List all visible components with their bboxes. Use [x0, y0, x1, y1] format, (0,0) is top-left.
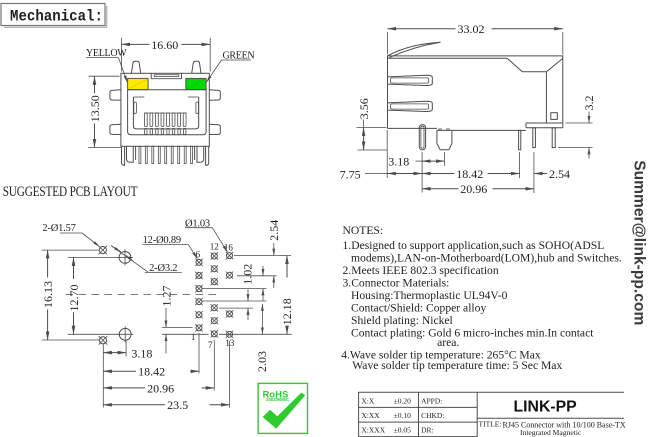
notes text block — [341, 224, 622, 372]
svg-text:Mechanical:: Mechanical: — [10, 7, 103, 26]
svg-text:LINK-PP: LINK-PP — [514, 399, 577, 416]
pcb: post hole 2-dia3.2 bottom — [117, 326, 133, 342]
svg-text:2.54: 2.54 — [267, 220, 281, 241]
dimension 3.56 (pin length) — [357, 98, 388, 150]
pcb: label 2-dia3.2 with leader — [111, 246, 182, 274]
front view: cavity side pins — [134, 102, 199, 114]
svg-text:13: 13 — [225, 338, 235, 348]
front view: 8-contact comb — [144, 113, 186, 135]
pcb: pin holes column 3 (pins 13-16) — [226, 252, 233, 338]
side view: latch arm slot lower — [388, 101, 433, 111]
svg-text:1.02: 1.02 — [241, 264, 255, 285]
front view: bottom shield legs — [122, 146, 209, 165]
svg-text:X:XXX: X:XXX — [361, 426, 385, 435]
dimension 18.42 (pcb bottom) — [103, 333, 199, 379]
svg-text:1.27: 1.27 — [159, 286, 173, 307]
side view: right pins — [533, 128, 555, 148]
front view: top EMI tab right — [192, 61, 201, 73]
pcb: dashed centerline — [66, 294, 222, 296]
svg-text:X:X: X:X — [361, 396, 375, 405]
dimension 12.70 (pcb left) — [67, 257, 118, 334]
dimension 1.02 (pcb, column offsets) — [202, 264, 277, 320]
svg-text:7.75: 7.75 — [340, 167, 361, 181]
dimension 3.18 (pcb bottom) — [103, 341, 152, 408]
pcb: label 2-dia1.57 with leader — [42, 223, 99, 246]
side view: plastic post (capsule) — [419, 125, 425, 150]
svg-text:Contact plating: Gold 6 micro-: Contact plating: Gold 6 micro-inches min… — [351, 327, 594, 340]
svg-text:3.56: 3.56 — [357, 98, 371, 119]
title text — [479, 420, 626, 437]
svg-text:12.18: 12.18 — [280, 298, 294, 325]
svg-text:3.Connector Materials:: 3.Connector Materials: — [343, 277, 450, 290]
side view: wide shield pin — [437, 129, 452, 150]
svg-text:2-Ø1.57: 2-Ø1.57 — [42, 223, 75, 234]
pcb: mounting hole 2-dia1.57 bottom — [99, 336, 108, 345]
dimension 3.2 (right) — [558, 96, 596, 159]
svg-text:7: 7 — [208, 340, 213, 350]
pcb: pin holes column 1 (pins 1-6) — [195, 259, 202, 332]
pcb: post hole 2-dia3.2 top — [117, 249, 133, 265]
side view: latch arm slot upper — [388, 75, 433, 85]
front view: right mounting ears — [209, 90, 220, 135]
RoHS logo — [258, 383, 307, 433]
dimension 1.27 (row offset) — [159, 286, 208, 354]
svg-text:NOTES:: NOTES: — [343, 224, 384, 237]
svg-text:CHKD:: CHKD: — [421, 411, 444, 420]
svg-text:16.13: 16.13 — [41, 281, 55, 308]
svg-text:33.02: 33.02 — [458, 22, 485, 36]
svg-text:12.70: 12.70 — [67, 285, 81, 312]
svg-text:3.2: 3.2 — [582, 96, 596, 111]
svg-text:Housing:Thermoplastic UL94V-0: Housing:Thermoplastic UL94V-0 — [351, 289, 508, 302]
svg-text:area.: area. — [437, 336, 459, 349]
svg-text:modems),LAN-on-Motherboard(LOM: modems),LAN-on-Motherboard(LOM),hub and … — [351, 252, 622, 265]
title header box "Mechanical:" — [1, 4, 107, 28]
title block texts — [361, 396, 444, 434]
svg-text:DR:: DR: — [421, 426, 434, 435]
dimension 18.42 (side) — [422, 152, 519, 181]
svg-text:23.5: 23.5 — [167, 398, 188, 412]
side view: latch spring — [388, 42, 440, 57]
LINK-PP logo text — [514, 399, 577, 416]
svg-text:±0.20: ±0.20 — [394, 396, 411, 405]
side view: bottom right platform — [526, 123, 563, 128]
svg-text:2.54: 2.54 — [549, 167, 570, 181]
yellow LED window — [128, 78, 149, 89]
svg-text:Contact/Shield: Copper alloy: Contact/Shield: Copper alloy — [351, 302, 486, 315]
dimension 3.18 (side, post to pin) — [388, 152, 444, 193]
svg-text:2002/95/EC: 2002/95/EC — [266, 397, 290, 402]
side view: small square hole — [551, 113, 558, 120]
dimension 23.5 (pcb bottom) — [103, 341, 229, 412]
front view: left mounting ears — [110, 90, 121, 135]
front view: top EMI tab left — [131, 61, 140, 73]
pcb: label 12-dia0.89 with leader — [143, 235, 198, 259]
label GREEN with leader — [206, 51, 254, 83]
pcb: label dia1.03 with leader — [185, 218, 228, 252]
svg-text:12: 12 — [210, 242, 219, 252]
dimension 2.03 (pcb right) — [255, 304, 269, 372]
dimension 16.13 (pcb left) — [41, 250, 99, 340]
dimension 20.96 (side) — [422, 182, 534, 196]
svg-text:±0.05: ±0.05 — [394, 426, 411, 435]
section label: SUGGESTED PCB LAYOUT — [3, 183, 138, 200]
svg-text:3.18: 3.18 — [131, 346, 152, 360]
svg-text:13.50: 13.50 — [88, 95, 102, 122]
dimension 13.50 (front height) — [88, 76, 121, 147]
side view: body outline — [388, 56, 563, 130]
dimension 2.54 (pcb top right) — [234, 220, 291, 288]
svg-text:±0.10: ±0.10 — [394, 411, 411, 420]
svg-text:Wave solder tip temperature ti: Wave solder tip temperature time: 5 Sec … — [352, 359, 562, 372]
svg-text:SUGGESTED PCB LAYOUT: SUGGESTED PCB LAYOUT — [3, 183, 138, 200]
svg-text:16: 16 — [224, 242, 234, 252]
svg-text:20.96: 20.96 — [147, 381, 174, 395]
svg-text:20.96: 20.96 — [460, 182, 487, 196]
pcb: mounting hole 2-dia1.57 top — [98, 246, 107, 255]
svg-text:X:XX: X:XX — [361, 411, 380, 420]
dimension 33.02 (side length) — [388, 22, 563, 54]
front view: top latch window — [151, 73, 181, 78]
label YELLOW with leader — [86, 48, 127, 82]
svg-text:Integrated Magnetic: Integrated Magnetic — [520, 428, 582, 437]
title block table — [359, 392, 624, 437]
svg-text:18.42: 18.42 — [456, 167, 483, 181]
svg-text:1.Designed to support applicat: 1.Designed to support application,such a… — [343, 239, 605, 252]
svg-text:2.03: 2.03 — [255, 351, 269, 372]
pcb: pin number labels — [191, 242, 235, 351]
dimension 7.75 — [340, 130, 423, 181]
svg-text:Shield plating: Nickel: Shield plating: Nickel — [351, 314, 453, 327]
svg-text:2.Meets IEEE 802.3 specificati: 2.Meets IEEE 802.3 specification — [343, 264, 499, 277]
svg-text:Summer@link-pp.com: Summer@link-pp.com — [631, 160, 648, 325]
pcb: pin holes column 2 (pins 7-12) — [211, 252, 218, 337]
svg-text:APPD:: APPD: — [421, 396, 442, 405]
dimension 20.96 (pcb bottom) — [103, 340, 214, 395]
dimension 2.54 (side) — [534, 152, 570, 193]
green LED window — [186, 78, 206, 89]
svg-text:16.60: 16.60 — [151, 38, 178, 52]
dimension 16.60 (front width) — [122, 38, 211, 72]
vertical email text Summer@link-pp.com — [631, 160, 648, 325]
svg-text:1: 1 — [191, 332, 196, 342]
front view: connector body outline — [121, 73, 209, 146]
front view: jack cavity outline — [128, 90, 207, 135]
svg-text:3.18: 3.18 — [388, 154, 409, 168]
side view: contact pin — [519, 130, 521, 149]
dimension 12.18 (pcb right) — [219, 256, 294, 335]
svg-text:18.42: 18.42 — [138, 365, 165, 379]
svg-text:2-Ø3.2: 2-Ø3.2 — [149, 263, 177, 274]
svg-text:TITLE:: TITLE: — [479, 420, 502, 429]
